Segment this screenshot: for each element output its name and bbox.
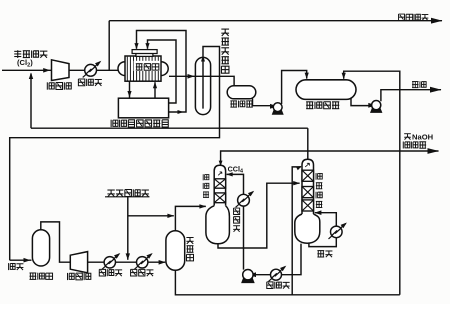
wire reboiler loop [309,210,336,246]
freon box 氟利昂冷冻装置 [118,98,168,118]
wire freon loop outer [134,31,186,115]
wire air/chlorine drop [126,197,130,260]
svg-text:CCl4: CCl4 [228,164,243,174]
separator dip tube & tail-gas line [10,47,220,261]
label 氯压机 top [47,82,71,89]
wire freon loop inner [145,40,176,103]
wire air branch to riser [128,214,174,218]
storage tank 液氯贮槽 [296,80,356,100]
label 冷却水 bottom [99,269,122,276]
wire desorber overhead riser [307,128,309,159]
wire NaOH line [219,148,439,167]
pump P2 [370,101,382,113]
wire pump1 to storage tank [282,71,309,105]
label 分离器 [186,238,193,261]
desorber sump bulb [295,214,320,243]
label 氯解吸塔 [316,173,322,207]
label 去NaOH [404,132,433,141]
label 气液分离器 [221,29,229,73]
absorber packing X1 [214,179,225,188]
svg-text:NaOH: NaOH [412,132,433,141]
cooler 冷却水 (top) [83,61,102,78]
wire recycle main line [31,127,308,129]
wire tank1 outlet to pump1 [253,99,278,109]
compressor 氯压机 (top) [52,60,70,81]
wire product riser [108,21,110,71]
wire freon feed down [127,81,131,97]
label 空气或氯气 [105,189,150,196]
wire storage outlet [351,99,376,108]
wire liquid chlorine out 液氯 [381,87,442,101]
wire recycle riser to suction [29,73,33,129]
desorber packing X2 [302,187,314,198]
separator column 气液分离器 [195,57,210,114]
desorber packing X1 [302,170,314,181]
label 液化器 [136,64,159,71]
pump P3 [241,270,255,284]
label 吸收塔 tower [203,174,209,197]
label 氯压机 bottom [68,273,91,280]
label 氯气 [9,263,24,270]
wire buffer to compressor2 [41,222,71,262]
tank 液氯槽 [227,86,256,99]
wire desorber feed from header [292,166,302,295]
cooler 冷却水 (bottom) [102,253,120,269]
chiller 冷冻水 (bottom) [135,253,153,269]
wire freon return up [153,82,157,98]
label 冷却水 top [78,79,101,86]
wire compressor to liquefier [69,69,119,71]
absorber sump bulb [206,206,230,244]
liquefier 液化器 vessel [118,56,168,81]
label 冷却水 CCl4 [267,282,290,289]
separator 分离器 vessel [166,231,185,270]
wire absorber bottoms to desorber [218,181,300,248]
wire product line 成品氯气 [109,18,442,24]
wire separator2 overhead to absorber [175,204,206,231]
desorber packing X3 [302,200,314,211]
svg-text:(Cl2): (Cl2) [17,58,33,69]
wire lean CCl4 return [226,172,243,269]
wire liquefier to tank line [169,74,234,86]
liquefier top flange [132,50,157,57]
label 液氯槽 [230,101,252,108]
buffer 缓冲器 [32,230,49,266]
label CCl4 [228,164,243,174]
cooler 冷却水 (CCl4) [269,266,287,282]
wire tail gas inlet 氯气 [10,258,32,263]
label 液氯 [412,81,426,88]
wire bottom main line [88,260,166,265]
heater 蒸汽 [329,223,347,239]
label 氟利昂冷冻装置 [111,120,168,127]
label 成品氯气 [399,14,429,21]
label 冷冻水 bottom [131,269,154,276]
label 干燥氯气 [14,50,47,58]
label 冷冻水 CCl4 [233,208,240,232]
absorber 吸收塔 tower [214,165,225,206]
label 蒸汽 [317,251,332,258]
label (Cl2) [17,58,33,69]
label 缓冲器 [29,273,52,280]
wire separator2 drain + bottom header [175,270,399,295]
wire dry-chlorine inlet [2,68,52,73]
desorber 氯解吸塔 tower [302,159,314,217]
pump P1 [272,103,284,115]
wire storage vent line [342,71,400,295]
absorber packing X2 [214,193,225,203]
label 液氯贮槽 [306,102,339,109]
label 吸收塔 NaOH [403,141,426,148]
compressor 氯压机 (bottom) [70,252,87,273]
chiller 冷冻水 (CCl4) [236,191,255,208]
wire desorber bottoms to pump3 [249,244,302,278]
